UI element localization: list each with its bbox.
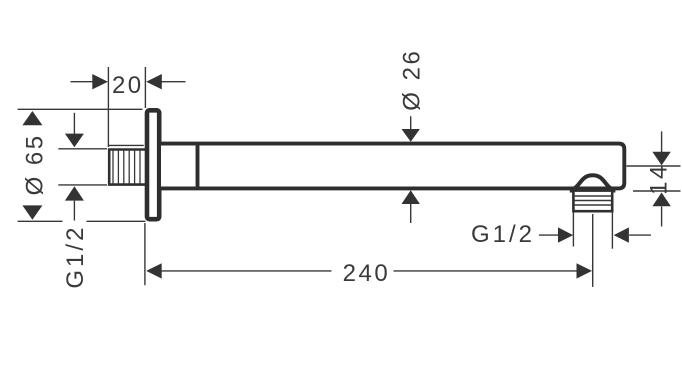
svg-text:20: 20 [112,72,144,99]
dim 14: upper arrow stem [661,131,663,152]
dim 20: right arrowhead [146,74,162,89]
wall flange [147,110,159,219]
cone joint line [196,142,200,190]
dim 240: outlet centre extension line [592,214,594,287]
svg-text:G1/2: G1/2 [62,225,89,289]
dim D26: lower arrowhead [402,190,420,204]
dim G1/2 wall: thread top projection line [58,148,109,150]
outlet thread block [570,191,616,212]
dim 14: lower extension line [633,190,681,192]
dim 240: left extension line [144,223,146,285]
dim D26: upper arrowhead [402,129,420,142]
dim 14: lower arrowhead [652,193,670,207]
dim D65: lower arrowhead [22,205,42,219]
dim G1/2 outlet: right extension line [611,213,613,249]
dim D26: upper arrow stem [410,116,412,129]
dim D65: bottom extension line (gap for G1/2 text) [18,220,63,222]
dim G1/2 wall: upper arrow stem [73,113,75,134]
dim 240: dimension line left segment [161,270,332,272]
svg-text:G1/2: G1/2 [471,221,535,248]
dim G1/2 outlet: left leader [539,234,561,236]
svg-text:Ø 26: Ø 26 [399,49,426,111]
shower arm tube [161,144,624,189]
dim 20: right leader [162,81,186,83]
dim 20: left arrowhead [92,74,108,89]
dim D26: lower arrow stem [410,204,412,224]
dim 20: extension line at flange face [144,67,146,108]
dim 14: upper extension line (arm axis) [627,165,681,167]
dim G1/2 outlet: right leader [629,234,651,236]
svg-text:14: 14 [646,163,673,195]
dim G1/2 wall: lower arrowhead [65,186,84,200]
dim 14: upper arrowhead [652,152,670,166]
dim 20: left leader [71,81,93,83]
dim G1/2 wall: thread bottom projection line [58,184,109,186]
dim 240: left arrowhead [146,263,162,278]
dim G1/2 outlet: left extension line [572,213,574,247]
dim G1/2 outlet: left arrowhead [558,227,573,242]
wall thread nipple [107,147,146,187]
dim 20: extension line at wall face [107,67,109,149]
dim G1/2 outlet: right arrowhead [614,227,629,242]
svg-text:240: 240 [343,260,391,287]
dim 14: lower arrow stem [661,207,663,227]
wall thread crest line [108,144,143,146]
dim 240: dimension line right segment [394,270,579,272]
dim G1/2 wall: upper arrowhead [65,134,84,148]
svg-text:Ø 65: Ø 65 [21,133,48,195]
dim 240: right arrowhead [577,263,593,278]
dim D65: top extension line [18,108,143,110]
elbow dome [570,175,615,190]
dim G1/2 wall: lower arrow stem [73,201,75,221]
dim D65: upper arrowhead [22,111,42,125]
